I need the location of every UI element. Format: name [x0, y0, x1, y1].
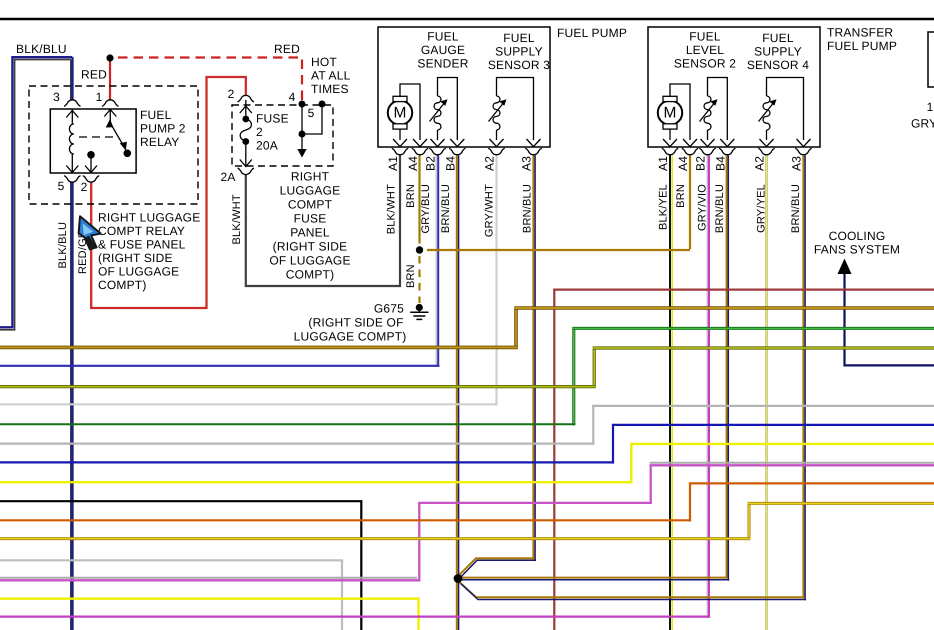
svg-text:BLK/BLU: BLK/BLU — [16, 42, 67, 56]
wire to COOLING FANS vertical — [845, 272, 934, 365]
wire GRY/BLU sender B2 drop — [436, 155, 438, 366]
relay K1 FUEL PUMP 2 RELAY — [50, 90, 185, 194]
svg-text:& FUSE PANEL: & FUSE PANEL — [98, 238, 186, 252]
svg-text:COMPT): COMPT) — [98, 278, 147, 292]
wire BRN/BLU sender B4 main drop — [457, 155, 459, 630]
svg-text:LEVEL: LEVEL — [686, 43, 724, 57]
svg-text:2: 2 — [228, 87, 235, 101]
wire BLU jog vertical — [612, 425, 614, 464]
wire GRN run horizontals — [0, 328, 934, 424]
wire BRN/BLU sensor4 A3 drop — [803, 155, 805, 600]
svg-text:RED: RED — [274, 42, 300, 56]
svg-text:RIGHT LUGGAGE: RIGHT LUGGAGE — [98, 211, 200, 225]
supply sensor resistor — [493, 96, 500, 130]
wire RED dashed hot at all times — [81, 42, 351, 101]
wire GRY jog vertical — [592, 406, 594, 445]
level sender resistor — [434, 96, 441, 130]
wire GRY/VIO bottom horizontal — [0, 615, 710, 617]
svg-text:PUMP 2: PUMP 2 — [140, 122, 186, 136]
wire BLK/YEL sensor2 A1 drop — [670, 155, 672, 630]
component: partial box at right edge — [911, 32, 934, 131]
wire GRY/VIO mid vertical — [418, 503, 420, 582]
node: BRN/BLU junction — [454, 574, 463, 583]
svg-text:B4: B4 — [713, 156, 727, 171]
svg-text:FUEL: FUEL — [503, 31, 535, 45]
ground G675 — [294, 302, 429, 344]
svg-text:SENSOR 2: SENSOR 2 — [674, 57, 736, 71]
svg-text:4: 4 — [289, 90, 296, 104]
motor symbol — [388, 101, 412, 125]
svg-text:B2: B2 — [694, 156, 708, 171]
level sender resistor — [704, 96, 711, 130]
svg-text:SENSOR 4: SENSOR 4 — [747, 58, 809, 72]
wire GRY run horizontals — [0, 406, 934, 444]
svg-text:A3: A3 — [520, 156, 534, 171]
wire BRN sender A4 drop — [418, 155, 420, 243]
svg-text:A4: A4 — [406, 156, 420, 171]
svg-text:BLK/WHT: BLK/WHT — [231, 194, 243, 244]
wire YEL run horizontals — [0, 444, 934, 482]
svg-text:SENSOR 3: SENSOR 3 — [488, 58, 550, 72]
svg-text:SENDER: SENDER — [417, 57, 468, 71]
wire BLK run horizontal — [0, 500, 362, 502]
wire YEL lower vertical — [417, 599, 419, 630]
wire BLK/BLU relay branch vertical — [71, 57, 73, 630]
svg-text:FUSE: FUSE — [256, 112, 289, 126]
svg-text:G675: G675 — [374, 302, 404, 316]
wire DK RED horizontal — [553, 289, 934, 291]
svg-text:GRY/WHT: GRY/WHT — [484, 184, 496, 237]
wire BRN heavy jog vertical — [514, 308, 518, 349]
svg-text:5: 5 — [58, 179, 65, 193]
wire BRN/BLU sensor2 B4 drop — [727, 155, 729, 580]
svg-text:20A: 20A — [256, 139, 278, 153]
svg-text:GRY/BLU: GRY/BLU — [420, 184, 432, 234]
svg-text:(RIGHT SIDE OF: (RIGHT SIDE OF — [308, 316, 403, 330]
svg-text:COMPT: COMPT — [288, 198, 333, 212]
svg-text:A4: A4 — [676, 156, 690, 171]
svg-text:TRANSFER: TRANSFER — [827, 26, 893, 40]
svg-text:B2: B2 — [424, 156, 438, 171]
svg-text:COMPT): COMPT) — [286, 268, 335, 282]
wire BRN/BLU junction fan branch to sensor2 B4 — [461, 578, 729, 580]
wire YEL jog vertical — [630, 444, 632, 484]
node: BRN ground junction — [416, 246, 423, 253]
svg-text:FANS SYSTEM: FANS SYSTEM — [814, 243, 900, 257]
svg-text:A2: A2 — [483, 156, 497, 171]
svg-text:GAUGE: GAUGE — [421, 43, 465, 57]
svg-text:FUEL: FUEL — [762, 31, 794, 45]
fuse F2 FUSE 2 20A — [220, 87, 325, 184]
wire GRY/BLU horizontal — [0, 365, 439, 367]
svg-text:OF LUGGAGE: OF LUGGAGE — [98, 265, 179, 279]
svg-text:B4: B4 — [443, 156, 457, 171]
svg-text:1: 1 — [96, 90, 103, 104]
svg-text:RIGHT: RIGHT — [291, 170, 330, 184]
svg-text:FUEL: FUEL — [140, 108, 172, 122]
label: fuse panel location caption — [269, 170, 350, 282]
svg-text:OF LUGGAGE: OF LUGGAGE — [269, 254, 350, 268]
svg-text:1: 1 — [927, 100, 934, 114]
component: FUEL GAUGE SENDER / FUEL SUPPLY SENSOR 3 box — [378, 27, 550, 171]
svg-text:SUPPLY: SUPPLY — [754, 45, 802, 59]
svg-text:A1: A1 — [656, 156, 670, 171]
labels: wire names under sensor box 2 — [658, 184, 803, 233]
wire GRN/YEL jog vertical — [593, 348, 596, 388]
svg-text:BRN/BLU: BRN/BLU — [522, 184, 534, 233]
cursor pointer — [79, 216, 101, 249]
svg-text:2A: 2A — [220, 170, 235, 184]
wire ORG run horizontals — [0, 483, 934, 520]
labels: wire names under sender box — [386, 184, 534, 237]
wire GRY/VIO sensor2 B2 drop — [707, 155, 709, 617]
supply sensor resistor — [763, 96, 770, 130]
connector pins — [392, 148, 408, 155]
svg-text:GRY: GRY — [911, 117, 934, 131]
wire GRY/WHT lower horizontal — [0, 559, 343, 561]
svg-text:2: 2 — [81, 180, 88, 194]
label: relay location caption — [98, 211, 200, 293]
svg-text:LUGGAGE: LUGGAGE — [280, 184, 341, 198]
node: hot feed junction — [106, 54, 113, 61]
svg-text:SUPPLY: SUPPLY — [495, 45, 543, 59]
wire: top border line — [0, 18, 934, 21]
wire BRN/BLU junction fan branch to sensor4 A3 — [459, 582, 806, 600]
wire YEL/BLK run horizontals — [0, 503, 934, 538]
svg-text:A2: A2 — [753, 156, 767, 171]
svg-text:AT ALL: AT ALL — [311, 69, 351, 83]
svg-text:BLK/YEL: BLK/YEL — [658, 184, 670, 230]
svg-text:FUEL: FUEL — [689, 30, 721, 44]
fuse panel dashed enclosure — [232, 105, 333, 166]
svg-text:RELAY: RELAY — [140, 135, 179, 149]
wire YEL/BLK jog vertical — [748, 503, 751, 540]
relay dashed enclosure — [29, 86, 198, 204]
svg-text:BRN/BLU: BRN/BLU — [790, 184, 802, 233]
svg-text:GRY/VIO: GRY/VIO — [697, 184, 709, 231]
wire GRY/WHT lower vertical — [341, 560, 343, 630]
svg-text:COMPT RELAY: COMPT RELAY — [98, 224, 185, 238]
wire BRN/BLU junction fan branch to sensor3 A3 — [459, 558, 536, 577]
svg-text:COOLING: COOLING — [829, 229, 886, 243]
svg-text:FUEL PUMP: FUEL PUMP — [557, 26, 627, 40]
svg-text:RED: RED — [81, 68, 107, 82]
wire GRY/VIO jog vertical — [650, 465, 652, 504]
wire ORG jog vertical — [689, 483, 691, 521]
wire BLK/BLU left branch — [0, 57, 72, 330]
svg-text:A3: A3 — [790, 156, 804, 171]
svg-text:FUEL PUMP: FUEL PUMP — [827, 39, 897, 53]
wire BLU run horizontals — [0, 425, 934, 463]
svg-text:FUEL: FUEL — [427, 30, 459, 44]
wire BRN dashed drop to G675 — [418, 256, 420, 303]
wire GRN/YEL run horizontals — [0, 348, 934, 387]
wire DK RED vertical — [553, 289, 555, 630]
svg-text:BLK/BLU: BLK/BLU — [57, 222, 69, 269]
svg-text:BRN: BRN — [405, 264, 417, 288]
wire GRY/WHT horizontal — [0, 403, 498, 405]
svg-text:(RIGHT SIDE: (RIGHT SIDE — [98, 251, 173, 265]
wire GRY/YEL sensor4 A2 drop — [765, 154, 768, 630]
wire RED/GRY from relay pin 2 to fuse pin 2 — [91, 77, 246, 308]
svg-text:M: M — [394, 105, 407, 122]
component: FUEL LEVEL SENSOR 2 / FUEL SUPPLY SENSOR 4 box — [648, 27, 820, 171]
svg-text:A1: A1 — [386, 156, 400, 171]
svg-text:BRN/BLU: BRN/BLU — [714, 184, 726, 233]
motor symbol — [658, 101, 682, 125]
svg-text:LUGGAGE COMPT): LUGGAGE COMPT) — [294, 330, 407, 344]
wire BRN heavy run horizontals — [0, 308, 934, 347]
svg-text:3: 3 — [53, 90, 60, 104]
wire GRY/WHT sensor3 A2 drop — [495, 155, 497, 405]
svg-text:(RIGHT SIDE: (RIGHT SIDE — [273, 240, 348, 254]
svg-text:M: M — [664, 105, 677, 122]
svg-text:FUSE: FUSE — [294, 212, 327, 226]
wire GRN jog vertical — [572, 328, 575, 425]
svg-text:TIMES: TIMES — [311, 82, 349, 96]
wire BLK/WHT fuse 2A to sender A1 — [246, 155, 400, 286]
wire GRY/VIO route horizontals — [0, 463, 934, 581]
svg-text:2: 2 — [256, 125, 263, 139]
svg-text:BRN: BRN — [675, 184, 687, 208]
wire BRN ground bus horizontal — [427, 249, 690, 251]
connector pins — [662, 148, 678, 155]
svg-text:BRN: BRN — [405, 184, 417, 208]
wire RED drop to relay pin 1 — [109, 60, 111, 100]
wire BLK lower vertical — [360, 501, 362, 630]
wire BRN sensor2 A4 drop — [689, 155, 691, 249]
wire YEL lower horizontal — [0, 598, 420, 600]
svg-text:PANEL: PANEL — [290, 226, 330, 240]
label COOLING FANS SYSTEM with arrow — [814, 229, 900, 274]
svg-text:5: 5 — [308, 106, 315, 120]
svg-text:GRY/YEL: GRY/YEL — [756, 184, 768, 233]
svg-text:BRN/BLU: BRN/BLU — [440, 184, 452, 233]
svg-text:HOT: HOT — [311, 55, 337, 69]
svg-text:BLK/WHT: BLK/WHT — [386, 184, 398, 234]
wire BRN/BLU sensor3 A3 drop — [533, 155, 535, 561]
